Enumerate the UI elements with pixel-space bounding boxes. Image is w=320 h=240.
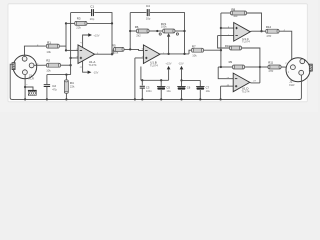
node RV1 left terminal: [156, 30, 158, 32]
node R5 / feedback 2 left leg: [129, 48, 131, 50]
wire R7 to distribution leg: [204, 49, 221, 51]
node U1.D output leg / R9 row: [259, 66, 261, 68]
wire R3 left lead: [66, 22, 75, 24]
node rail A / C3: [141, 79, 143, 81]
resistor R6: [137, 29, 150, 33]
wire U1.A output: [95, 53, 114, 55]
capacitor C6 electrolytic: [177, 87, 185, 90]
wire R2 right lead: [61, 64, 71, 66]
wire R10 to U1.D output leg: [242, 48, 260, 83]
wire RV1 right lead: [175, 30, 185, 32]
wire bias rail: [47, 74, 71, 76]
svg-text:10k: 10k: [233, 14, 238, 18]
wire RV1 wiper down to U1.B output: [168, 34, 170, 54]
svg-text:C6: C6: [187, 86, 191, 90]
svg-text:XLR: XLR: [289, 83, 295, 87]
node C6 / ground rail: [180, 98, 182, 100]
potentiometer RV1 body: [163, 29, 175, 33]
wire C7 to ground rail: [199, 90, 201, 99]
RV1 terminal ring left: [159, 33, 161, 35]
capacitor C1: [92, 9, 94, 16]
svg-text:10k: 10k: [192, 53, 197, 57]
svg-text:R7: R7: [192, 44, 196, 48]
wire J1 pin 3 to R2: [34, 64, 46, 66]
node C5 / ground rail: [160, 98, 162, 100]
resistor R5: [114, 47, 125, 51]
svg-text:R6: R6: [135, 25, 139, 29]
wire +15V arrow stem: [168, 69, 170, 80]
capacitor C2: [44, 85, 50, 87]
svg-text:R9: R9: [229, 60, 233, 64]
svg-text:TL074: TL074: [242, 40, 250, 44]
wire U1.C -input to cross resistor R10: [218, 36, 230, 48]
node distribution / R9 row: [220, 66, 222, 68]
wire to U1.A non-inverting input: [71, 57, 78, 59]
svg-text:100k: 100k: [161, 25, 167, 29]
wire C2 to ground rail: [46, 87, 48, 100]
svg-text:2k2: 2k2: [136, 34, 141, 38]
node J1 pin1 / ground rail: [24, 98, 26, 100]
svg-text:R11: R11: [268, 60, 273, 64]
node C2 / ground rail: [46, 98, 48, 100]
node U1.D +input / ground rail: [219, 98, 221, 100]
node wiper / U1.B output: [167, 53, 169, 55]
svg-text:10p: 10p: [90, 17, 95, 21]
resistor R10: [230, 46, 242, 50]
wire U1.B +input down to ground rail: [134, 58, 136, 99]
node bias rail / R4: [65, 73, 67, 75]
svg-text:10k: 10k: [46, 69, 51, 73]
op-amp U1.C: [234, 23, 251, 42]
svg-text:100n: 100n: [146, 89, 152, 93]
resistor R1: [46, 44, 59, 48]
svg-text:22k: 22k: [70, 85, 75, 89]
node R4 / ground rail: [65, 98, 67, 100]
wire down to C5: [160, 80, 162, 86]
wire C1 row left: [71, 12, 91, 14]
wire C3 to ground rail: [141, 88, 143, 99]
wire C5 to ground rail: [160, 90, 162, 99]
svg-text:TL074: TL074: [89, 63, 97, 67]
svg-text:C4: C4: [146, 4, 150, 8]
wire J2 pin 1 down to ground rail corner: [298, 75, 301, 99]
resistor R8: [231, 11, 247, 15]
wire R11 to J2 pin 3: [281, 66, 291, 68]
svg-text:47R: 47R: [268, 69, 273, 73]
connector J2 XLR output: [286, 58, 312, 82]
svg-text:10u: 10u: [206, 89, 211, 93]
wire R9 right lead: [245, 66, 260, 68]
op-amp U1.B: [143, 45, 160, 64]
capacitor C7 electrolytic: [196, 87, 204, 90]
wire rail B down to C7: [199, 80, 201, 86]
wire U1.B V- down to rail A: [140, 67, 142, 81]
wire down to C3: [141, 80, 143, 85]
svg-text:47p: 47p: [52, 87, 57, 91]
svg-text:-15V: -15V: [178, 61, 184, 65]
op-amp U1.D: [233, 73, 250, 92]
svg-text:R3: R3: [77, 16, 81, 20]
wire bias rail down to R4: [65, 75, 67, 80]
svg-text:+15V: +15V: [165, 61, 171, 65]
power arrow -15V at U1.A: [88, 71, 92, 74]
svg-text:10k: 10k: [114, 51, 119, 55]
wire C4 row left: [130, 12, 146, 14]
wire to U1.B non-inverting input: [135, 57, 144, 59]
wire jog up to R5 row: [112, 49, 114, 54]
power arrow +15V at U1.A: [88, 33, 92, 36]
wire C1 left leg down through +input to bias rail: [70, 13, 72, 75]
wire R4 to ground rail: [65, 93, 67, 99]
wire R8 down to U1.C output: [247, 13, 262, 31]
node feedback leg / R3 row: [65, 22, 67, 24]
node U1.A non-inverting input leg: [69, 57, 71, 59]
wire branch to chassis ground symbol: [25, 87, 33, 90]
wire R6 to RV1: [149, 30, 163, 32]
svg-text:10u: 10u: [166, 89, 171, 93]
node feedback 1 / U1.A output: [111, 53, 113, 55]
capacitor C4: [147, 9, 149, 16]
svg-text:C1: C1: [90, 4, 94, 8]
node rail A / C5: [160, 79, 162, 81]
wire down to C6: [181, 80, 183, 86]
node feedback 2 / R6 row: [129, 30, 131, 32]
svg-text:R2: R2: [46, 58, 50, 62]
wire R1 right lead: [59, 45, 66, 47]
node J1 pin1 / chassis ground branch: [24, 86, 26, 88]
wire to U1.C inverting input: [218, 35, 234, 37]
node U1.C output / R8: [260, 30, 262, 32]
node U1.B +input / ground rail: [134, 98, 136, 100]
wire supply rail B: [182, 79, 201, 81]
svg-text:XLR: XLR: [28, 77, 34, 81]
svg-text:10p: 10p: [146, 16, 151, 20]
resistor R11: [268, 65, 281, 69]
svg-text:TL074: TL074: [150, 64, 158, 68]
node R3 / feedback right leg: [111, 22, 113, 24]
resistor R7: [192, 48, 204, 52]
wire jog up to R7: [189, 50, 192, 54]
power arrow -15V supply: [180, 66, 184, 70]
wire distribution leg vertical: [220, 13, 222, 67]
wire to R11: [260, 66, 268, 68]
wire feedback 1 left leg: [65, 23, 67, 50]
wire C4 row right down to U1.B output: [150, 13, 185, 54]
wire U1.A V+ to +15V arrow: [83, 35, 89, 48]
node feedback 2 / output: [183, 53, 185, 55]
arrow RV1 wiper: [167, 33, 170, 37]
svg-text:+15V: +15V: [93, 33, 99, 37]
wire down to U1.D inverting input: [218, 67, 233, 79]
wire to U1.A inverting input: [66, 49, 78, 51]
wire J1 pin 2 up to R1: [24, 46, 46, 56]
wire R3 right lead: [87, 22, 112, 24]
ground symbol below J1: [28, 90, 37, 95]
svg-text:R8: R8: [231, 7, 235, 11]
wire R8 left lead: [221, 12, 231, 14]
resistor R2: [47, 63, 61, 67]
wire R9 row left: [218, 66, 232, 68]
resistor R12: [266, 29, 279, 33]
op-amp U1.A: [78, 45, 95, 64]
resistor R3: [75, 21, 87, 25]
wire C1 row right down to output: [94, 13, 112, 55]
wire J1 pin 1 down to ground rail: [24, 75, 26, 100]
wire U1.C output row: [250, 30, 266, 32]
node R1 / feedback / U1.A inverting input: [65, 49, 67, 51]
svg-text:R1: R1: [47, 41, 51, 45]
wire U1.D output: [250, 82, 260, 84]
node R2 / bias leg: [69, 64, 71, 66]
svg-text:R10: R10: [225, 44, 230, 48]
svg-text:10k: 10k: [46, 50, 51, 54]
resistor R4: [64, 80, 68, 93]
capacitor C3: [140, 86, 145, 88]
wire U1.A V- to -15V arrow: [83, 61, 88, 72]
connector J1 XLR input: [12, 55, 37, 79]
node distribution / R7: [220, 49, 222, 51]
wire R12 to J2 hot pin: [279, 31, 292, 60]
wire bias rail down to C2: [46, 75, 48, 85]
wire to U1.D non-inverting input: [221, 85, 234, 87]
svg-text:R5: R5: [112, 44, 116, 48]
wire -15V arrow stem: [181, 69, 183, 80]
wire to U1.C non-inverting input: [221, 27, 234, 29]
wire C6 to ground rail: [181, 90, 183, 99]
wire ground rail: [13, 98, 301, 100]
wire feedback 2 left leg: [129, 13, 131, 50]
wire U1.B output row: [160, 53, 189, 55]
svg-text:-15V: -15V: [93, 70, 99, 74]
wire supply rail A: [141, 79, 169, 81]
node distribution / U1.C +input: [220, 27, 222, 29]
resistor R9: [233, 65, 245, 69]
RV1 terminal ring right: [176, 33, 178, 35]
svg-text:TL074: TL074: [242, 90, 250, 94]
power arrow +15V supply: [167, 66, 171, 70]
svg-text:22k: 22k: [76, 26, 81, 30]
node C3 / ground rail: [141, 98, 143, 100]
node rail B / C6: [180, 79, 182, 81]
svg-text:47R: 47R: [266, 34, 271, 38]
node C7 / ground rail: [199, 98, 201, 100]
wire chassis from J1 shell to ground rail corner: [10, 64, 13, 99]
wire R6 left lead: [130, 30, 136, 32]
capacitor C5 electrolytic: [157, 87, 165, 90]
svg-text:R12: R12: [266, 25, 272, 29]
wire U1.D +input to ground rail: [220, 86, 222, 99]
node RV1 / feedback right leg: [183, 30, 185, 32]
wire R5 to U1.B inverting input: [124, 49, 143, 50]
